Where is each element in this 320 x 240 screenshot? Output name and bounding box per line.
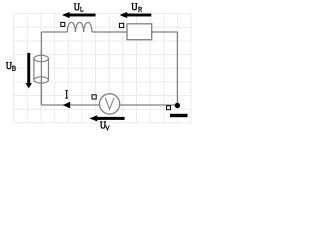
wire bottom xyxy=(41,104,177,106)
label I xyxy=(65,91,68,99)
voltmeter V xyxy=(100,94,120,114)
wire right vertical xyxy=(176,32,178,106)
wire top (left corner to inductor) xyxy=(41,31,67,33)
wire left vertical xyxy=(40,32,42,105)
wire inductor-to-resistor xyxy=(92,31,127,33)
inductor L xyxy=(67,22,92,32)
terminal square near resistor xyxy=(119,23,123,27)
terminal square near inductor xyxy=(61,22,65,26)
label U_L xyxy=(74,4,83,12)
label U_R xyxy=(131,3,141,11)
terminal square near voltmeter xyxy=(92,95,96,99)
terminal square near junction xyxy=(167,106,171,110)
resistor R xyxy=(127,24,152,40)
wire resistor-to-right-corner xyxy=(152,31,178,33)
arrow U_B xyxy=(26,53,33,89)
arrow U_L xyxy=(62,12,96,18)
current arrowhead I xyxy=(63,102,70,109)
arrow U_R xyxy=(120,12,152,18)
wire through source xyxy=(40,50,42,105)
arrow U_V xyxy=(89,115,124,121)
source cylinder xyxy=(34,55,49,83)
label U_B xyxy=(6,62,15,70)
label U_V xyxy=(100,122,109,130)
ground bar xyxy=(170,114,188,117)
junction dot xyxy=(175,103,180,108)
